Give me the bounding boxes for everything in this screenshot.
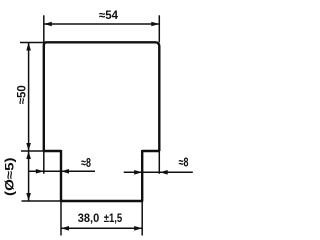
svg-text:38,0: 38,0 bbox=[78, 213, 100, 225]
svg-text:≈54: ≈54 bbox=[99, 10, 119, 22]
svg-text:≈8: ≈8 bbox=[179, 155, 189, 169]
svg-text:≈8: ≈8 bbox=[81, 156, 91, 170]
svg-text:≈50: ≈50 bbox=[17, 85, 29, 104]
svg-text:(Ø≈5): (Ø≈5) bbox=[5, 157, 17, 196]
svg-text:±1,5: ±1,5 bbox=[104, 213, 123, 225]
